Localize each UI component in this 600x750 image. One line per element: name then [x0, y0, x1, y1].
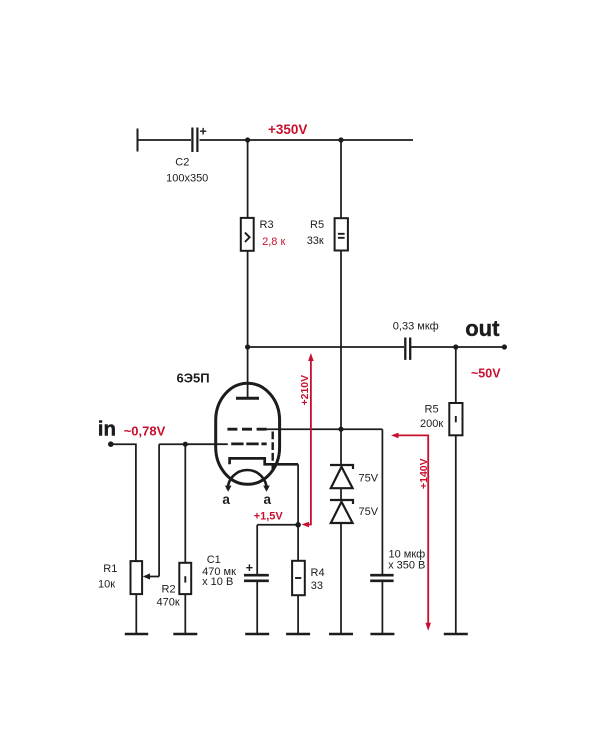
svg-text:+: +: [200, 125, 207, 139]
svg-text:R3: R3: [260, 219, 274, 231]
svg-text:+: +: [246, 561, 253, 575]
svg-text:+350V: +350V: [268, 122, 307, 137]
svg-text:2,8 к: 2,8 к: [262, 236, 285, 248]
svg-text:75V: 75V: [359, 506, 379, 518]
svg-text:0,33 мкф: 0,33 мкф: [393, 321, 439, 333]
svg-text:C1: C1: [207, 554, 221, 566]
svg-text:+140V: +140V: [418, 458, 430, 489]
svg-text:+210V: +210V: [299, 375, 311, 406]
svg-text:+1,5V: +1,5V: [254, 511, 284, 523]
svg-text:~50V: ~50V: [471, 367, 501, 381]
svg-text:6Э5П: 6Э5П: [177, 371, 210, 386]
svg-text:R2: R2: [162, 584, 176, 596]
svg-text:100x350: 100x350: [166, 173, 208, 185]
svg-text:~0,78V: ~0,78V: [124, 424, 166, 439]
svg-text:R4: R4: [311, 567, 325, 579]
svg-text:R1: R1: [103, 563, 117, 575]
svg-text:10к: 10к: [98, 578, 115, 590]
svg-text:x 10 В: x 10 В: [202, 576, 233, 588]
svg-text:in: in: [98, 418, 116, 441]
svg-text:C2: C2: [175, 157, 189, 169]
svg-text:33к: 33к: [307, 235, 324, 247]
svg-text:200к: 200к: [420, 418, 443, 430]
svg-text:470к: 470к: [157, 597, 180, 609]
svg-text:75V: 75V: [359, 473, 379, 485]
svg-text:a: a: [222, 492, 230, 507]
svg-text:R5: R5: [425, 404, 439, 416]
svg-text:R5: R5: [310, 219, 324, 231]
svg-text:a: a: [263, 492, 271, 507]
svg-text:33: 33: [311, 580, 323, 592]
svg-text:out: out: [465, 316, 500, 341]
svg-text:x 350 В: x 350 В: [388, 560, 425, 572]
